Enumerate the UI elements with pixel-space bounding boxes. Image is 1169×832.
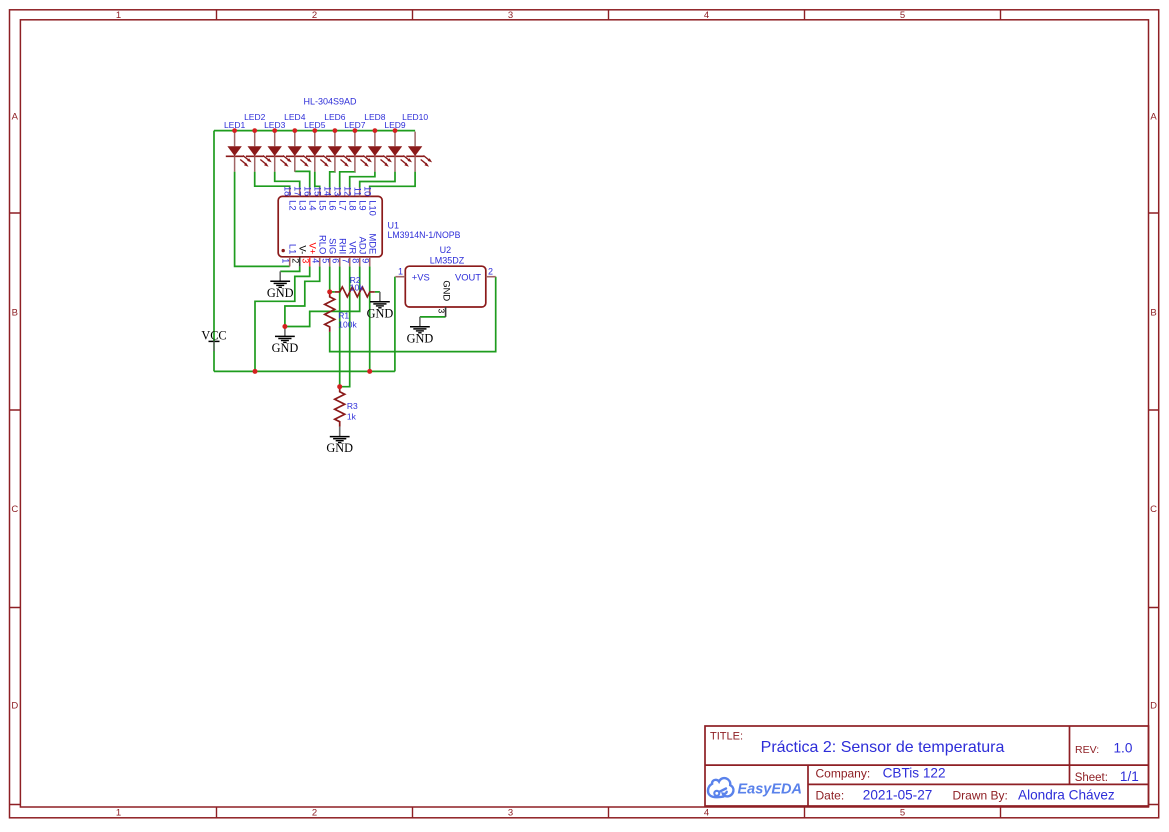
wire LED10 cathode to U1 pin 10 <box>370 172 415 188</box>
LED LED2 <box>244 112 272 172</box>
junction dot GND node (pins 4,8) <box>282 324 287 329</box>
svg-text:18: 18 <box>283 186 293 196</box>
svg-text:L3: L3 <box>298 200 309 210</box>
svg-text:L10: L10 <box>368 200 379 216</box>
svg-text:15: 15 <box>313 186 323 196</box>
svg-text:Sheet:: Sheet: <box>1075 772 1108 784</box>
svg-text:4: 4 <box>704 10 709 21</box>
svg-text:1: 1 <box>398 266 403 276</box>
junction dot LED7 anode on rail <box>353 128 358 133</box>
svg-text:L6: L6 <box>328 200 339 210</box>
svg-text:GND: GND <box>441 280 452 301</box>
svg-text:7: 7 <box>341 258 351 263</box>
svg-text:5: 5 <box>900 10 905 21</box>
svg-text:R3: R3 <box>347 401 358 411</box>
title block divider under title row <box>705 764 1149 766</box>
LED LED10 <box>402 112 432 172</box>
IC U1 LM3914N-1/NOPB body <box>278 196 382 256</box>
title block divider company/date rows <box>808 783 1149 785</box>
row letters left <box>11 112 18 712</box>
U1 bottom pin numbers 1..9 <box>281 258 371 263</box>
column numbers bottom <box>116 808 905 819</box>
junction dot LED3 anode on rail <box>272 128 277 133</box>
resistor R2 10k (horizontal) <box>330 275 375 297</box>
svg-text:2: 2 <box>291 258 301 263</box>
svg-text:8: 8 <box>351 258 361 263</box>
junction dot R3 top node <box>337 384 342 389</box>
wire U2 pin1 +VS to VCC rail <box>394 277 396 372</box>
junction dot LED6 anode on rail <box>333 128 338 133</box>
svg-text:A: A <box>1150 112 1157 123</box>
wire LED7 cathode to U1 pin 13 <box>340 172 355 188</box>
svg-text:3: 3 <box>508 808 513 819</box>
svg-text:LED8: LED8 <box>364 112 386 122</box>
svg-text:Práctica 2: Sensor de temperat: Práctica 2: Sensor de temperatura <box>761 739 1005 756</box>
svg-text:L5: L5 <box>318 200 329 210</box>
ground flag at U2 pin3 <box>407 317 434 346</box>
svg-text:LED10: LED10 <box>402 112 428 122</box>
svg-text:L4: L4 <box>308 200 319 210</box>
U2 pin stubs <box>395 277 495 317</box>
wire R2 right end to GND flag <box>375 291 380 293</box>
svg-text:1.0: 1.0 <box>1114 741 1133 756</box>
LED LED8 <box>364 112 392 172</box>
svg-text:1: 1 <box>116 808 121 819</box>
resistor R1 100k (vertical) <box>325 292 358 332</box>
wire U1 pin3 V+ to VCC rail <box>255 266 310 371</box>
junction dot SIG/R1/R2 node <box>327 289 332 294</box>
junction dot LED2 anode on rail <box>252 128 257 133</box>
column ruler ticks bottom <box>217 807 1001 818</box>
svg-text:12: 12 <box>343 186 353 196</box>
svg-text:100k: 100k <box>338 320 357 330</box>
svg-text:1/1: 1/1 <box>1120 769 1139 784</box>
svg-text:B: B <box>12 308 18 319</box>
row ruler ticks left <box>10 213 21 805</box>
U1 bottom pin names <box>288 233 379 254</box>
junction dot LED5 anode on rail <box>312 128 317 133</box>
wire U1 pin9 MDE to VCC rail <box>369 266 371 371</box>
LED LED3 <box>264 120 292 172</box>
svg-text:HL-304S9AD: HL-304S9AD <box>303 96 357 106</box>
wire LED1 cathode to U1 pin 1 <box>235 172 290 267</box>
svg-text:1k: 1k <box>347 411 357 421</box>
LED LED9 <box>384 120 412 172</box>
svg-text:13: 13 <box>333 186 343 196</box>
svg-text:17: 17 <box>293 186 303 196</box>
row letters right <box>1150 112 1157 712</box>
svg-text:CBTis 122: CBTis 122 <box>883 765 946 780</box>
wire U1 pin7 VR to R3 node <box>340 266 350 386</box>
U1 reference labels <box>388 220 461 240</box>
svg-text:U1: U1 <box>388 220 400 230</box>
U2 pin numbers <box>398 266 493 313</box>
svg-text:L2: L2 <box>288 200 299 210</box>
wire LED6 cathode to U1 pin 14 <box>330 172 335 188</box>
svg-text:1: 1 <box>116 10 121 21</box>
svg-text:Company:: Company: <box>816 766 871 780</box>
U2 reference labels <box>430 245 465 266</box>
svg-text:Alondra Chávez: Alondra Chávez <box>1018 788 1115 803</box>
svg-text:9: 9 <box>361 258 371 263</box>
junction dot MDE on VCC rail <box>367 369 372 374</box>
resistor R3 1k (vertical) <box>335 387 358 427</box>
svg-text:10k: 10k <box>350 283 364 293</box>
wire LED8 cathode to U1 pin 12 <box>350 172 375 188</box>
svg-text:4: 4 <box>704 808 709 819</box>
ground flag at RLO/ADJ node <box>272 327 299 356</box>
svg-text:TITLE:: TITLE: <box>710 731 743 743</box>
wire U1 pin6 RHI down to R3 node <box>339 266 341 386</box>
U2 pin names <box>412 272 481 302</box>
wire U1 pin2 V- to GND flag <box>280 266 300 271</box>
wire LED4 cathode to U1 pin 16 <box>295 171 310 187</box>
svg-text:VOUT: VOUT <box>455 272 481 283</box>
svg-text:LM3914N-1/NOPB: LM3914N-1/NOPB <box>388 230 461 240</box>
ground flag at U1 pin2 <box>267 271 294 300</box>
svg-text:LM35DZ: LM35DZ <box>430 256 465 266</box>
title block divider logo cell <box>807 765 809 806</box>
wire VCC net: bottom horizontal rail <box>214 370 395 372</box>
junction dot LED9 anode on rail <box>393 128 398 133</box>
title block outline <box>705 726 1149 806</box>
svg-text:5: 5 <box>321 258 331 263</box>
svg-text:Date:: Date: <box>816 789 845 803</box>
U1 bottom pin stubs 1..9 <box>290 257 370 267</box>
junction dot V+ on VCC rail <box>253 369 258 374</box>
LED LED4 <box>284 112 312 172</box>
EasyEDA logo <box>708 778 802 797</box>
svg-text:2: 2 <box>312 808 317 819</box>
svg-text:+VS: +VS <box>412 272 430 283</box>
LED LED5 <box>304 120 332 172</box>
svg-text:D: D <box>11 701 18 712</box>
U1 top pin names L2..L10 <box>288 200 379 216</box>
IC U2 LM35DZ body <box>405 266 486 307</box>
wire U1 pin5 SIG down to R1/R2 node <box>329 266 331 292</box>
svg-text:1: 1 <box>281 258 291 263</box>
LED LED6 <box>324 112 352 172</box>
svg-text:LED4: LED4 <box>284 112 306 122</box>
svg-text:16: 16 <box>303 186 313 196</box>
wire LED5 cathode to U1 pin 15 <box>315 172 320 188</box>
svg-text:REV:: REV: <box>1075 744 1099 756</box>
LED LED7 <box>344 120 372 172</box>
U1 top pin numbers 18..10 <box>283 186 373 196</box>
wire U2 pin3 to GND flag <box>420 316 446 318</box>
ground flag at R3 bottom <box>326 427 353 456</box>
svg-text:B: B <box>1150 308 1156 319</box>
svg-text:4: 4 <box>311 258 321 263</box>
svg-text:2: 2 <box>312 10 317 21</box>
svg-text:11: 11 <box>353 187 363 196</box>
title block divider REV/Sheet column <box>1069 726 1071 784</box>
wire U1 pin8 ADJ to GND node <box>285 266 360 326</box>
svg-text:LED6: LED6 <box>324 112 346 122</box>
junction dot LED1 anode on rail <box>232 128 237 133</box>
svg-text:3: 3 <box>508 10 513 21</box>
svg-text:D: D <box>1150 701 1157 712</box>
wire U1 pin4 RLO to GND node <box>285 266 320 326</box>
column numbers top <box>116 10 905 21</box>
svg-text:L7: L7 <box>338 200 349 210</box>
LED LED1 <box>224 120 252 172</box>
svg-text:C: C <box>1150 504 1157 515</box>
wire VCC net: left vertical from LED rail to bottom rail <box>213 131 215 372</box>
U1 top pin stubs 18..10 <box>290 187 370 196</box>
svg-text:3: 3 <box>301 258 311 263</box>
svg-text:Drawn By:: Drawn By: <box>953 789 1008 803</box>
svg-text:VCC: VCC <box>201 328 226 342</box>
svg-text:EasyEDA: EasyEDA <box>738 782 802 798</box>
svg-text:6: 6 <box>331 258 341 263</box>
svg-text:2021-05-27: 2021-05-27 <box>863 788 933 803</box>
svg-text:2: 2 <box>488 266 493 276</box>
wire LED9 cathode to U1 pin 11 <box>360 172 395 188</box>
svg-text:A: A <box>12 112 19 123</box>
svg-text:U2: U2 <box>440 245 452 255</box>
svg-text:3: 3 <box>437 309 447 314</box>
svg-text:5: 5 <box>900 808 905 819</box>
svg-text:10: 10 <box>363 186 373 196</box>
svg-text:LED2: LED2 <box>244 112 266 122</box>
ground flag at R2 right <box>367 292 394 321</box>
wire LED2 cathode to U1 pin 18 <box>255 172 290 188</box>
wire VOUT net: R1 bottom to U2 VOUT <box>330 277 496 352</box>
column ruler ticks top <box>217 10 1001 20</box>
svg-text:MDE: MDE <box>368 233 379 254</box>
svg-text:14: 14 <box>323 186 333 196</box>
wire LED anode top rail <box>214 130 415 132</box>
junction dot LED4 anode on rail <box>292 128 297 133</box>
svg-text:L9: L9 <box>358 200 369 210</box>
VCC power flag <box>201 328 226 351</box>
wire LED3 cathode to U1 pin 17 <box>275 172 300 188</box>
junction dot LED8 anode on rail <box>373 128 378 133</box>
svg-text:C: C <box>11 504 18 515</box>
row ruler ticks right <box>1149 213 1159 805</box>
svg-text:L8: L8 <box>348 200 359 210</box>
